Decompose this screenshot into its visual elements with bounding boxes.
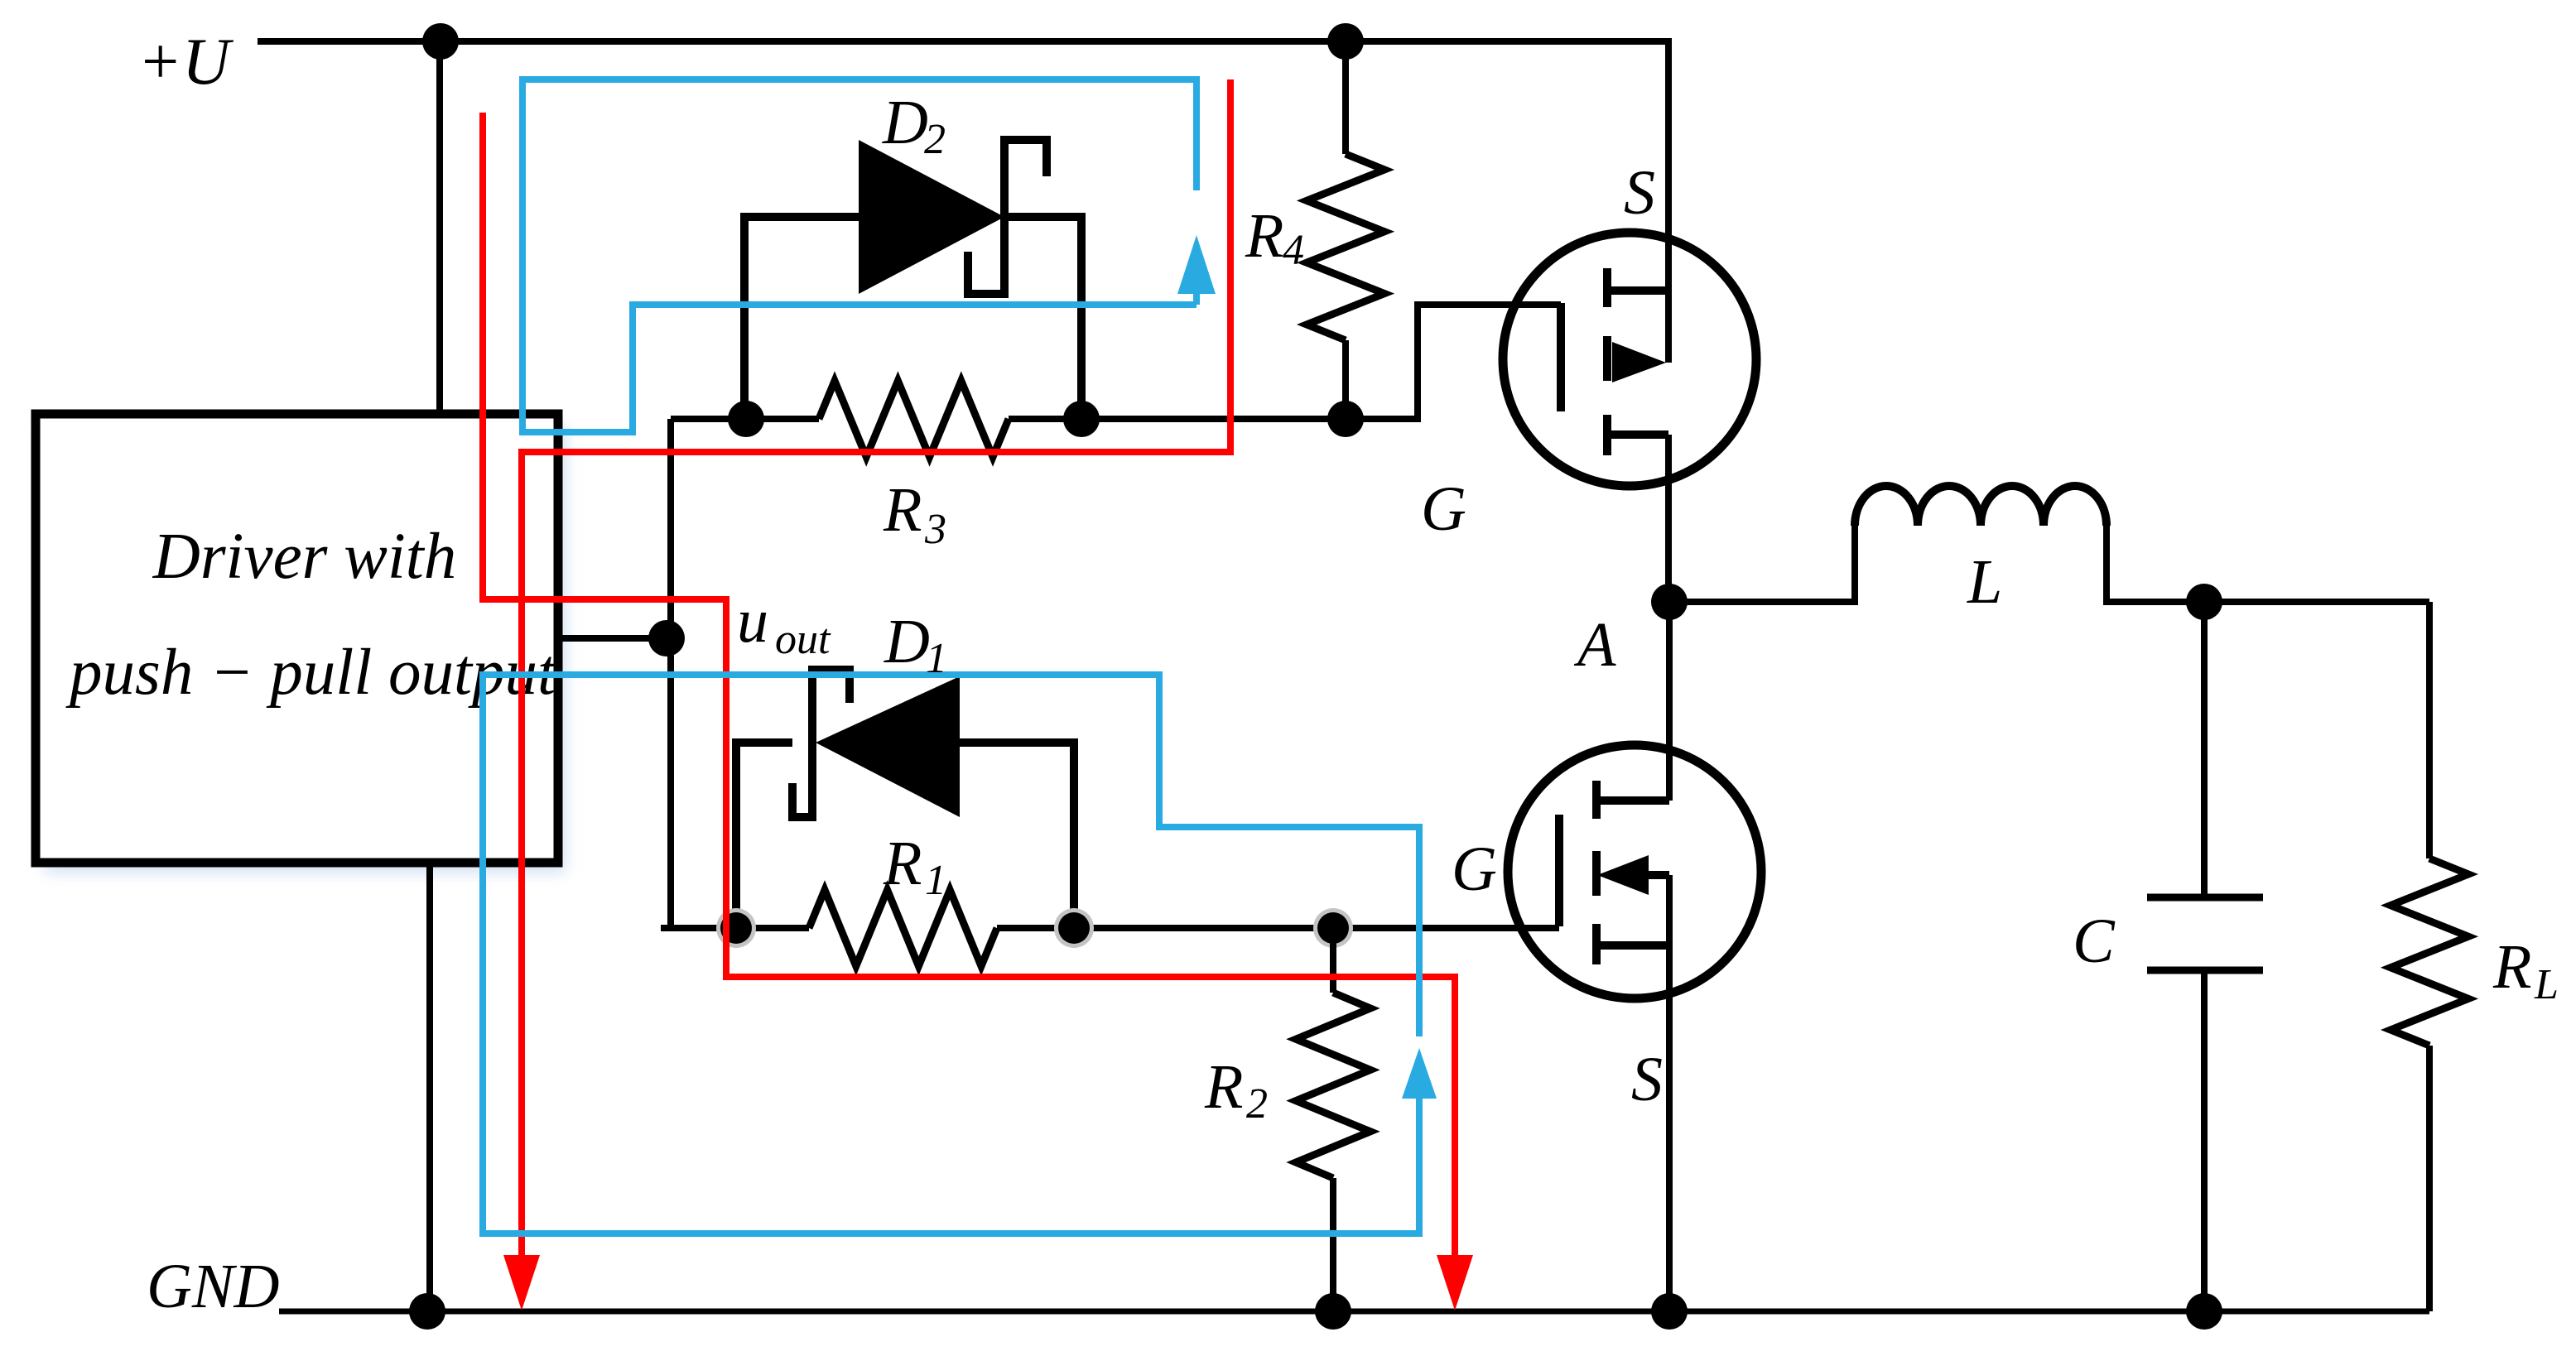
svg-text:out: out (775, 616, 831, 663)
svg-text:L: L (1967, 547, 2002, 617)
svg-text:R: R (883, 475, 922, 545)
svg-text:L: L (2534, 961, 2559, 1008)
svg-text:R: R (2492, 932, 2531, 1002)
svg-text:2: 2 (924, 116, 946, 163)
svg-text:D: D (884, 607, 930, 676)
svg-text:+U: +U (137, 26, 234, 99)
svg-text:2: 2 (1246, 1080, 1268, 1128)
svg-text:R: R (1204, 1052, 1243, 1122)
svg-text:Driver with: Driver with (152, 521, 456, 593)
svg-text:A: A (1573, 610, 1616, 680)
svg-text:G: G (1421, 474, 1466, 544)
svg-text:D: D (882, 88, 928, 157)
svg-text:1: 1 (926, 635, 947, 682)
svg-text:S: S (1624, 158, 1655, 228)
svg-text:3: 3 (924, 506, 946, 553)
svg-text:4: 4 (1283, 227, 1304, 274)
svg-text:1: 1 (925, 857, 946, 904)
svg-text:R: R (1245, 201, 1283, 271)
svg-text:C: C (2073, 907, 2116, 976)
svg-text:R: R (883, 829, 922, 898)
svg-text:S: S (1631, 1045, 1663, 1114)
svg-text:u: u (737, 586, 768, 656)
svg-text:G: G (1452, 834, 1497, 904)
svg-text:GND: GND (147, 1252, 279, 1321)
